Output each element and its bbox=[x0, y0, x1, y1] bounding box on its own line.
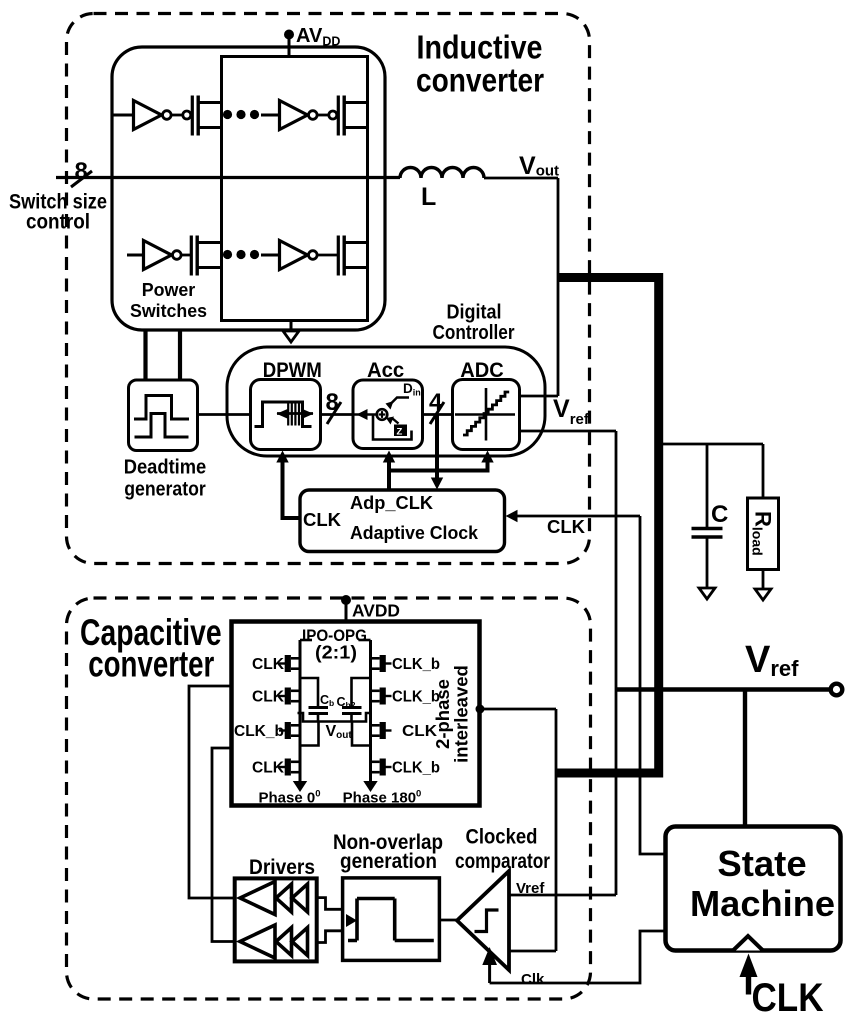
power supply AVDD (top) bbox=[284, 25, 340, 58]
power supply AVDD (capacitive) bbox=[341, 595, 400, 622]
inverter I2 (PMOS driver) bbox=[261, 101, 317, 130]
ADC block U_ADC bbox=[453, 380, 520, 450]
label Acc bbox=[367, 359, 405, 382]
svg-text:Adaptive Clock: Adaptive Clock bbox=[350, 522, 479, 543]
transistor S5 (CLK_b) bbox=[371, 655, 441, 673]
svg-text:Z: Z bbox=[397, 427, 403, 438]
svg-text:Power: Power bbox=[142, 279, 196, 300]
svg-text:CLK: CLK bbox=[547, 516, 586, 537]
wire: CLK into adaptive clock (arrow from state machine) bbox=[506, 510, 641, 537]
wire: ADC Vref output bbox=[520, 430, 617, 433]
svg-text:Digital: Digital bbox=[447, 302, 502, 324]
transistor S4 (CLK) bbox=[252, 759, 300, 777]
label Inductive converter bbox=[416, 30, 544, 100]
wire: load branch bbox=[663, 444, 763, 527]
wire: IPO-OPG drive inputs bbox=[189, 686, 240, 942]
wire: adaptive clock to Acc (arrow) bbox=[383, 451, 395, 491]
svg-text:8: 8 bbox=[326, 389, 339, 416]
adaptive clock block bbox=[300, 490, 505, 552]
node: inner output rail rectangle bbox=[222, 57, 368, 321]
label Non-overlap generation bbox=[333, 831, 443, 873]
svg-text:4: 4 bbox=[429, 389, 443, 416]
transistor M2 (PMOS) bbox=[317, 96, 367, 136]
bus slash 8 (switch size control) bbox=[71, 158, 92, 187]
transistor M3 (NMOS) bbox=[181, 236, 221, 276]
svg-text:C: C bbox=[711, 501, 728, 528]
wire: right phase rail bbox=[359, 640, 371, 781]
svg-text:Adp_CLK: Adp_CLK bbox=[350, 492, 434, 513]
wire+bus slash 4 (ADC to Acc) bbox=[423, 389, 453, 424]
svg-text:Clocked: Clocked bbox=[466, 826, 538, 849]
svg-text:Phase 1800: Phase 1800 bbox=[343, 789, 422, 807]
capacitive converter dashed boundary bbox=[67, 598, 591, 999]
inverter I1 (PMOS driver) bbox=[112, 101, 171, 130]
wire: CLK net (state machine to adaptive clock) bbox=[640, 516, 666, 854]
svg-text:CLK: CLK bbox=[303, 509, 342, 530]
label Switch size control bbox=[9, 191, 107, 234]
non-overlap generation block bbox=[343, 878, 440, 961]
svg-text:interleaved: interleaved bbox=[451, 665, 472, 763]
accumulator block U_ACC bbox=[353, 380, 423, 449]
wire+bus slash 8 (Acc to DPWM) bbox=[321, 389, 354, 424]
svg-text:AVDD: AVDD bbox=[352, 601, 400, 621]
ellipsis dots (PMOS row) bbox=[223, 110, 259, 119]
inverter I3 (NMOS driver) bbox=[127, 241, 181, 270]
svg-text:Phase 00: Phase 00 bbox=[258, 789, 320, 807]
label Digital Controller bbox=[433, 302, 515, 345]
wire: adaptive clock to DPWM (arrow) bbox=[276, 451, 300, 519]
label DPWM bbox=[263, 359, 322, 382]
transistor S1 (CLK) bbox=[252, 655, 300, 673]
svg-text:generator: generator bbox=[124, 478, 206, 501]
DPWM block U_DPWM bbox=[251, 380, 321, 450]
buffer chain row 2 bbox=[240, 925, 308, 958]
svg-text:CLK_b: CLK_b bbox=[234, 723, 284, 740]
wire: 4-bus down to adaptive clock (arrow) bbox=[431, 415, 443, 490]
transistor S8 (CLK_b) bbox=[371, 759, 441, 777]
capacitor Cb2 bbox=[337, 678, 371, 722]
node Vref terminal bbox=[616, 639, 842, 695]
svg-text:CLK: CLK bbox=[752, 976, 824, 1020]
svg-text:State: State bbox=[717, 843, 806, 884]
deadtime generator block bbox=[129, 380, 198, 451]
transistor S3 (CLK_b) bbox=[234, 722, 300, 740]
comparator U_CMP bbox=[457, 871, 509, 970]
svg-text:CLK_b: CLK_b bbox=[392, 656, 440, 673]
wire: switch-size control entry and Vout node line bbox=[56, 176, 400, 179]
wire: non-overlap to drivers connectors bbox=[317, 898, 343, 943]
comparator feedback input bbox=[509, 950, 556, 953]
IPO-OPG block boundary bbox=[232, 622, 480, 806]
label Capacitive converter bbox=[80, 612, 222, 685]
wire: Vout sense down to ADC bbox=[520, 178, 559, 396]
label Deadtime generator bbox=[124, 456, 207, 501]
label Drivers bbox=[249, 856, 315, 879]
buffer chain row 1 bbox=[240, 882, 308, 915]
capacitor C bbox=[692, 501, 729, 537]
svg-text:generation: generation bbox=[340, 850, 437, 873]
comparator Clk input arrow bbox=[482, 947, 545, 988]
ground (capacitor C) bbox=[699, 537, 715, 599]
wire: deadtime to DPWM bbox=[198, 413, 251, 416]
ellipsis dots (NMOS row) bbox=[223, 250, 259, 259]
label Vout (inductive output) bbox=[519, 152, 559, 180]
label Clocked comparator bbox=[455, 826, 550, 874]
svg-text:Switches: Switches bbox=[130, 300, 207, 321]
inductive converter dashed boundary bbox=[67, 14, 590, 564]
wire: non-overlap input from comparator bbox=[439, 919, 457, 922]
label Vref (small, at controller output) bbox=[553, 395, 590, 428]
transistor M4 (NMOS) bbox=[317, 236, 367, 276]
wire: left phase rail bbox=[300, 640, 312, 781]
phase 180 output arrow bbox=[343, 781, 422, 807]
svg-text:control: control bbox=[26, 211, 90, 234]
svg-text:8: 8 bbox=[75, 158, 88, 185]
CLK input arrow (state machine) bbox=[740, 954, 824, 1021]
drivers block bbox=[235, 878, 317, 961]
wire: inductor to Vout corner bbox=[484, 177, 558, 180]
ground (power stage) bbox=[283, 321, 299, 343]
state machine block bbox=[666, 827, 841, 951]
svg-text:Deadtime: Deadtime bbox=[124, 456, 207, 479]
node: IPO-OPG output to comparator bbox=[476, 705, 557, 952]
transistor S6 (CLK_b) bbox=[371, 688, 441, 706]
wire: thick Vout power rail bbox=[556, 278, 659, 774]
wire: branch to ADC (arrow) bbox=[389, 451, 494, 471]
svg-text:Clk: Clk bbox=[521, 971, 545, 988]
svg-text:Drivers: Drivers bbox=[249, 856, 315, 879]
label ADC bbox=[460, 359, 504, 382]
svg-text:Controller: Controller bbox=[433, 322, 515, 344]
svg-text:Machine: Machine bbox=[690, 883, 835, 924]
inverter I4 (NMOS driver) bbox=[261, 241, 317, 270]
inductor L bbox=[400, 168, 484, 212]
transistor M1 (PMOS) bbox=[171, 96, 221, 136]
svg-text:comparator: comparator bbox=[455, 850, 550, 873]
comparator Vref input bbox=[509, 880, 616, 897]
power switches block U_PS bbox=[112, 47, 385, 330]
phase 0 output arrow bbox=[258, 781, 320, 807]
svg-text:CLK_b: CLK_b bbox=[392, 760, 440, 777]
wire: Vref to state machine top bbox=[743, 690, 747, 828]
svg-text:converter: converter bbox=[88, 644, 214, 685]
resistor Rload bbox=[748, 444, 779, 570]
svg-text:converter: converter bbox=[416, 63, 544, 100]
label Power Switches bbox=[130, 279, 207, 321]
capacitor Cb bbox=[300, 678, 334, 722]
transistor S2 (CLK) bbox=[252, 688, 300, 706]
digital controller block boundary bbox=[227, 347, 545, 456]
wire: gate drive lines to deadtime generator bbox=[146, 330, 181, 380]
svg-text:Inductive: Inductive bbox=[417, 30, 543, 67]
svg-text:(2:1): (2:1) bbox=[315, 643, 357, 663]
transistor S7 (CLK) bbox=[371, 722, 438, 740]
svg-text:L: L bbox=[421, 183, 436, 211]
wire: Clk net (state machine to comparator) bbox=[490, 931, 666, 983]
svg-text:Vref: Vref bbox=[516, 880, 545, 897]
node Vout (IPO-OPG) bbox=[298, 713, 371, 746]
ground (Rload) bbox=[755, 570, 771, 601]
label 2-phase interleaved (rotated) bbox=[432, 665, 472, 763]
wire: Vref net vertical (ADC to comparator) bbox=[615, 431, 618, 895]
